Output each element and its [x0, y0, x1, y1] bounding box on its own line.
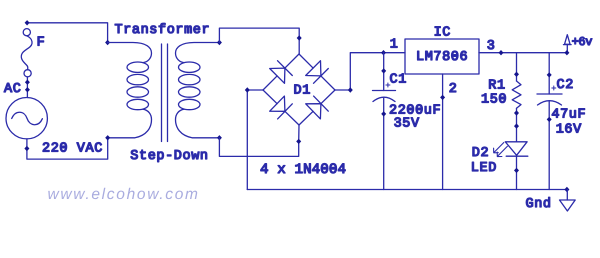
- node secondary bottom terminal: [217, 135, 222, 140]
- svg-text:C1: C1: [390, 73, 407, 88]
- transformer core: [161, 44, 163, 142]
- svg-text:Step-Down: Step-Down: [130, 149, 208, 164]
- diode D1b top-right: [299, 54, 335, 90]
- wire bridge left to ground rail: [247, 90, 263, 190]
- wire top-left from fuse to primary: [27, 23, 108, 43]
- node primary bottom terminal: [105, 135, 110, 140]
- svg-text:16V: 16V: [556, 122, 582, 137]
- wire fuse to AC source: [26, 77, 28, 98]
- node bridge DC+ terminal: [348, 87, 353, 92]
- svg-text:Transformer: Transformer: [115, 23, 211, 38]
- svg-text:220 VAC: 220 VAC: [42, 141, 103, 156]
- svg-text:+6v: +6v: [572, 35, 593, 49]
- fuse F: [21, 29, 32, 77]
- wire IC pin3 to +6v rail: [479, 52, 567, 54]
- svg-text:3: 3: [487, 39, 496, 54]
- svg-text:47uF: 47uF: [551, 108, 586, 123]
- svg-text:2: 2: [449, 82, 458, 97]
- svg-text:150: 150: [481, 92, 507, 107]
- svg-text:IC: IC: [434, 25, 451, 40]
- primary winding: [108, 43, 152, 138]
- svg-text:LM7806: LM7806: [416, 50, 468, 65]
- diode D1a top-left: [263, 54, 299, 90]
- svg-text:D1: D1: [294, 84, 311, 99]
- svg-text:D2: D2: [472, 146, 489, 161]
- transformer T1: [105, 40, 222, 142]
- svg-text:LED: LED: [471, 161, 497, 176]
- diode D1c bottom-left: [263, 90, 299, 125]
- LED D2: [494, 142, 528, 190]
- resistor R1: [512, 53, 521, 142]
- node IC pin3 terminal: [499, 50, 504, 55]
- node bridge AC1 terminal: [297, 35, 302, 40]
- diode D1d bottom-right: [299, 90, 335, 125]
- capacitor C1: [373, 53, 396, 190]
- node AC source top terminal: [25, 87, 30, 92]
- svg-text:C2: C2: [557, 78, 574, 93]
- svg-text:Gnd: Gnd: [526, 197, 552, 212]
- wire secondary top to bridge top: [219, 28, 299, 54]
- svg-text:F: F: [37, 36, 46, 51]
- node secondary top terminal: [217, 40, 222, 45]
- svg-text:35V: 35V: [394, 116, 420, 131]
- wire IC pin2 to ground rail: [442, 74, 444, 190]
- label C2 plus: [552, 86, 556, 90]
- +6v supply arrow: [564, 35, 572, 56]
- AC source V1: [6, 98, 47, 139]
- ground symbol: [560, 190, 576, 212]
- wire secondary bottom to bridge bottom: [219, 125, 299, 156]
- node IC pin2 terminal: [440, 95, 445, 100]
- node AC source bottom terminal: [24, 146, 29, 151]
- node primary top terminal: [105, 40, 110, 45]
- IC U1 LM7806 box: [405, 39, 479, 74]
- wire AC source bottom to 220VAC loop: [27, 138, 108, 159]
- wire bridge right to top rail: [335, 53, 405, 90]
- label C1 plus: [386, 83, 390, 87]
- svg-text:4 x 1N4004: 4 x 1N4004: [260, 162, 346, 178]
- ground rail: [247, 189, 567, 191]
- svg-text:AC: AC: [4, 82, 21, 97]
- svg-text:www.elcohow.com: www.elcohow.com: [48, 186, 200, 203]
- node ground rail right end: [564, 187, 569, 192]
- node bridge DC- terminal: [245, 87, 250, 92]
- bridge rectifier D1: [263, 54, 335, 125]
- svg-text:R1: R1: [488, 78, 505, 93]
- node fuse top junction: [25, 20, 30, 25]
- secondary winding: [176, 43, 220, 138]
- capacitor C2: [537, 53, 562, 190]
- svg-text:1: 1: [390, 38, 399, 53]
- node fuse bottom terminal: [25, 80, 30, 85]
- LED arrow 2: [497, 146, 507, 156]
- node bridge AC2 terminal: [296, 139, 301, 144]
- LED arrow 1: [494, 143, 504, 153]
- node top rail C1 junction: [381, 50, 386, 55]
